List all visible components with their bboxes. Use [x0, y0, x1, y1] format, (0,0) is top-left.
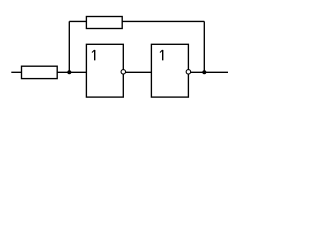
wire: gate U2 output lead right — [188, 71, 228, 73]
inverter U2 label "1" — [160, 50, 163, 60]
wire: gate U1 output to gate U2 input — [123, 71, 151, 73]
inverter U2 output bubble — [186, 70, 191, 75]
wire: top feedback right segment — [122, 20, 204, 22]
inverter U1 body (IEC rectangle) — [86, 44, 123, 97]
wire: node A vertical up to feedback path — [68, 21, 70, 72]
inverter U1 output bubble — [121, 70, 126, 75]
wire: feedback vertical down to output node — [203, 21, 205, 72]
resistor R2 (feedback resistor, IEC box) — [86, 17, 122, 29]
wire: input lead left — [11, 71, 21, 73]
wire: R1 output to gate U1 input — [57, 71, 86, 73]
wire: top feedback left segment — [69, 20, 86, 22]
node A junction dot — [67, 70, 71, 74]
inverter U2 body (IEC rectangle) — [151, 44, 188, 97]
resistor R1 (input series resistor, IEC box) — [22, 66, 58, 78]
output node junction dot — [202, 70, 206, 74]
inverter U1 label "1" — [92, 50, 95, 60]
